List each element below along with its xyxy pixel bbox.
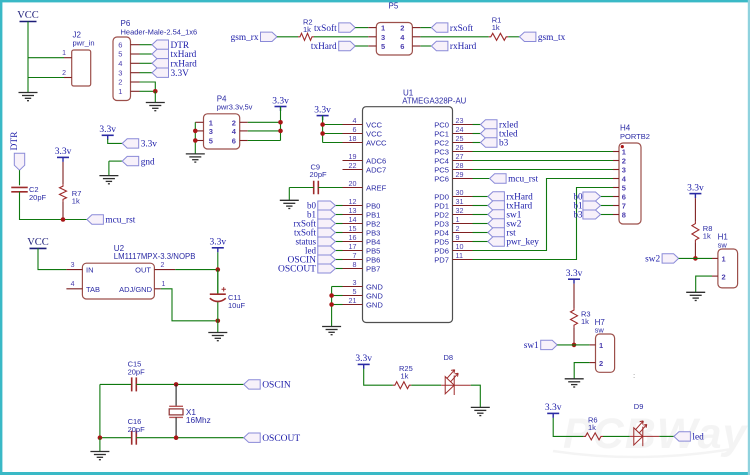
svg-text:PC2: PC2 [434,138,449,147]
ground (below VCC/J2) [19,93,38,101]
svg-text:PC5: PC5 [434,165,449,174]
wire VCC to J2 pin 1 [28,57,64,59]
power flag VCC (top-left) [17,10,39,22]
net label DTR (vertical) [10,131,25,170]
pin 14 (PB2) of U1 [343,223,363,225]
svg-text:GND: GND [366,282,383,291]
wire 3.3v to R25 [364,369,393,385]
wire PC5 to H4 pin 3 [473,169,614,171]
wire P6.2 down to P6.1 [140,82,156,91]
wire P4.4 to 3.3v [248,130,281,132]
IC U1 ATMEGA328P-AU [363,89,467,323]
svg-text:5: 5 [209,137,213,146]
svg-text:PC6: PC6 [434,174,449,183]
pin 2 of H4 [613,160,619,162]
wire R25 to D8 [411,384,441,386]
wire H1 pin 2 to ground [696,276,712,292]
wire C9 to ground [288,188,290,201]
svg-text:2: 2 [62,70,66,77]
svg-text:10uF: 10uF [228,301,246,310]
svg-text:led: led [692,433,704,443]
pin 1 of H4 [613,151,619,153]
watermark PCBWay [553,410,749,458]
wire P4.2 to 3.3v [248,121,281,123]
svg-text:IN: IN [86,266,94,275]
net label b3 (H4) [574,210,601,220]
svg-text:1k: 1k [581,317,589,326]
wire 3.3v to U1 VCC pin 4 [323,124,343,126]
net label led [305,246,335,256]
pin 5 of P4 [195,140,203,142]
wire crystal left rail [99,384,101,437]
svg-text:GND: GND [366,291,383,300]
power flag 3.3v (at U1 VCC) [314,105,331,120]
pin 4 (TAB) of U2 [66,288,82,290]
svg-text:ADC7: ADC7 [366,165,386,174]
connector J2 pwr_in [72,31,95,87]
junction P4.3 [193,129,198,134]
svg-text:PD6: PD6 [434,246,449,255]
svg-text:DTR: DTR [10,131,20,151]
svg-text:LM1117MPX-3.3/NOPB: LM1117MPX-3.3/NOPB [114,252,196,261]
svg-text:sw2: sw2 [645,255,660,265]
net label mcu_rst (PC6) [490,174,539,185]
svg-text:8: 8 [622,211,626,220]
pin 1 of P6 [131,90,140,92]
svg-text:PB1: PB1 [366,210,380,219]
pin 27 (PC4) of U1 [453,160,473,162]
svg-text:16: 16 [349,233,357,242]
pin 8 of H4 [613,214,619,216]
wire P6.1 to ground [140,90,156,92]
pin 2 (OUT) of U2 [154,269,175,271]
junction 3.3v rail / P4.2 [278,120,283,125]
wire PD7 to H4 pin 5 [473,188,614,260]
pin 9 (PD5) of U1 [453,241,473,243]
junction R7/mcu_rst [61,217,66,222]
pin 1 of P5 [368,27,376,29]
svg-text:3.3v: 3.3v [355,354,372,364]
svg-text:2: 2 [161,262,165,269]
net label sw1 (U1 right) [488,210,522,221]
svg-text:7: 7 [353,251,357,260]
svg-text:txSoft: txSoft [314,23,337,34]
svg-text:1: 1 [381,24,385,33]
svg-text:31: 31 [456,197,464,206]
svg-text:led: led [305,246,316,256]
svg-text:1: 1 [162,281,166,288]
resistor R7 1k [60,162,82,220]
pin 18 (AVCC) of U1 [343,142,363,144]
wire b1 to H4 pin 7 [601,205,614,207]
wire VCC vertical to ground [27,22,29,93]
pin 7 (PB6) of U1 [343,259,363,261]
pin 3 of P4 [195,130,203,132]
junction X1 bottom [174,435,179,440]
wire P6.5 to txHard [140,53,153,55]
wire b1 to U1 [335,214,342,216]
svg-text:rxSoft: rxSoft [450,23,474,34]
svg-text:5: 5 [118,50,122,59]
pin 4 of P5 [412,36,420,38]
pin 5 of H4 [613,187,619,189]
svg-text:6: 6 [232,137,236,146]
connector H4 PORTB2 [619,124,650,225]
power flag 3.3v (tie) [99,125,116,140]
net label txled [481,129,518,140]
svg-text:OSCOUT: OSCOUT [262,434,300,444]
wire rst [473,232,488,234]
pin 19 (ADC6) of U1 [343,160,363,162]
pin 11 (PD7) of U1 [453,259,473,261]
svg-text:PB5: PB5 [366,246,380,255]
svg-text:AVCC: AVCC [366,138,387,147]
svg-text:1: 1 [118,87,122,96]
pin 2 (PD4) of U1 [453,232,473,234]
pin 15 (PB3) of U1 [343,232,363,234]
wire pwr_key [473,241,488,243]
svg-text:6: 6 [118,40,122,49]
ground (below U1) [322,327,341,335]
junction OUT/3.3v [216,267,221,272]
net label pwr_key (U1 right) [488,237,539,248]
svg-text:14: 14 [349,215,357,224]
wire C9 to AREF [318,187,342,189]
svg-text:Header-Male-2.54_1x6: Header-Male-2.54_1x6 [121,27,198,36]
net label txSoft [294,228,335,238]
svg-text:pwr_key: pwr_key [506,238,539,248]
pin 7 of H4 [613,205,619,207]
wire junction to H7 pin 1 [574,344,590,346]
net label b1 [307,210,335,220]
net label rxHard [152,59,197,70]
pin 25 (PC2) of U1 [453,142,473,144]
svg-text:26: 26 [456,143,464,152]
svg-text:25: 25 [456,134,464,143]
power flag 3.3v (at R25) [355,354,372,369]
svg-text:2: 2 [456,224,460,233]
net label b0 [307,201,335,211]
wire to C15 [100,383,131,385]
net label OSCOUT [278,264,335,275]
svg-text:1: 1 [62,50,66,57]
power flag 3.3v (at R6) [545,403,562,418]
net label OSCOUT [244,433,301,444]
wire b0 to H4 pin 6 [601,196,614,198]
svg-text:6: 6 [622,193,626,202]
svg-text:sw: sw [595,326,605,335]
wire GND pin 3 [332,286,343,288]
wire P5.4 to R1 [420,36,488,38]
pin 6 of P5 [412,45,420,47]
svg-text:8: 8 [353,260,357,269]
svg-text:15: 15 [349,224,357,233]
pin 31 (PD1) of U1 [453,205,473,207]
net label OSCIN [287,255,335,266]
pin 3 of P5 [368,36,376,38]
svg-text:PD5: PD5 [434,237,449,246]
wire P6.4 to rxHard [140,62,153,64]
wire C9 left [289,187,313,189]
net label gnd (tie) [122,156,155,167]
pin 2 of P6 [131,81,140,83]
wire txSoft to U1 [335,232,342,234]
wire P5.6 to rxHard [420,45,431,47]
wire gsm_rx to R2 [277,36,298,38]
wire 3.3v tie [108,139,123,143]
pin 2 of P5 [412,27,420,29]
connector P4 pwr3.3v,5v [204,95,253,149]
wire C2 to mcu_rst [20,192,87,220]
svg-text:1k: 1k [72,196,80,205]
wire txSoft to P5 pin 1 [355,27,368,29]
resistor R1 1k [489,16,508,41]
svg-text:4: 4 [71,281,75,288]
svg-text:2: 2 [722,272,726,281]
pin 3 of H4 [613,169,619,171]
net label gsm_rx [231,32,277,43]
svg-text:12: 12 [349,197,357,206]
net label led [674,432,704,443]
svg-text:GND: GND [366,300,383,309]
svg-text:17: 17 [349,242,357,251]
svg-text:ADJ/GND: ADJ/GND [119,285,153,294]
wire b3 [473,142,481,144]
wire OUT to 3.3v [175,269,218,271]
pin 12 (PB0) of U1 [343,205,363,207]
svg-text:PB3: PB3 [366,228,380,237]
net label 3.3v (tie) [122,139,157,150]
wire PC6 to mcu_rst [473,178,490,180]
svg-text:1k: 1k [303,25,311,34]
svg-text:1k: 1k [401,372,409,381]
wire txHard [473,205,488,207]
net label mcu_rst (left) [87,215,136,226]
svg-text:20pF: 20pF [128,425,146,434]
pin 22 (ADC7) of U1 [343,169,363,171]
resistor R8 1k [692,198,712,258]
regulator U2 LM1117MPX-3.3/NOPB [82,244,195,299]
wire R2 to P5 pin 3 [314,36,368,38]
svg-text:2: 2 [118,78,122,87]
ground (below C11) [208,333,227,341]
svg-text:21: 21 [349,296,357,305]
pin 2 of H7 [590,362,596,364]
wire 3.3v to C11 to ground [217,270,219,295]
svg-text:3: 3 [118,68,122,77]
svg-text:2: 2 [622,157,626,166]
power flag 3.3v (at P4) [272,96,289,111]
connector H1 sw [718,233,738,288]
wire C15 to OSCIN [136,383,243,385]
svg-text:1: 1 [456,215,460,224]
svg-text:30: 30 [456,188,464,197]
pin 5 (GND) of U1 [343,295,363,297]
svg-text:2: 2 [599,359,603,368]
svg-text:b3: b3 [574,210,584,220]
pin 10 (PD6) of U1 [453,250,473,252]
net label status [295,237,335,247]
wire rxled [473,124,481,126]
net label b1 (H4) [574,201,601,211]
wire sw1 chevron to junction [557,344,574,346]
ground (below H7) [565,379,584,387]
wire OSCIN to U1 [335,259,342,261]
connector P5 2x3 [376,2,412,55]
pin 1 of J2 [64,57,72,59]
svg-text:ATMEGA328P-AU: ATMEGA328P-AU [402,96,466,105]
wire P5.2 to rxSoft [420,27,431,29]
svg-text:TAB: TAB [86,285,100,294]
net label sw2 (U1 right) [488,219,522,230]
svg-text:23: 23 [456,116,464,125]
net label rxHard [431,41,476,52]
svg-text:rxHard: rxHard [450,42,477,52]
svg-text:5: 5 [622,184,626,193]
LED D8 [441,370,471,395]
svg-text::: : [633,371,635,380]
svg-text:gsm_rx: gsm_rx [231,33,259,43]
pin 4 of P6 [131,62,140,64]
wire PD6 to H4 pin 4 [473,179,614,251]
wire junction to H1 pin 1 [695,257,712,259]
pin 13 (PB1) of U1 [343,214,363,216]
svg-text:OSCIN: OSCIN [262,381,291,391]
pin 4 (VCC) of U1 [343,124,363,126]
wire to ground below P6 [154,91,156,102]
ground (below D8) [471,407,490,415]
pin 4 of H4 [613,178,619,180]
svg-text:3: 3 [209,127,213,136]
svg-text:3.3v: 3.3v [566,269,583,279]
wire 3.3v to U1 AVCC pin 18 [323,142,343,144]
pin 3 of P6 [131,72,140,74]
pin 1 of P4 [195,121,203,123]
svg-text:3.3v: 3.3v [209,238,226,248]
svg-text:PD7: PD7 [434,255,449,264]
wire to C16 [100,437,131,439]
svg-text:pwr3.3v,5v: pwr3.3v,5v [217,103,253,112]
svg-text:20pF: 20pF [128,368,146,377]
pin 24 (PC1) of U1 [453,133,473,135]
power flag 3.3v (at R3) [566,269,583,284]
svg-text:6: 6 [400,42,404,51]
svg-text:PC3: PC3 [434,147,449,156]
wire D9 to led label [659,435,674,437]
wire D8 to ground [471,385,481,407]
pin 28 (PC5) of U1 [453,169,473,171]
wire X1 top [175,384,177,406]
wire gnd tie [109,160,122,162]
svg-text:PB0: PB0 [366,201,380,210]
svg-text:b3: b3 [499,139,509,149]
wire 3.3v to U1 VCC pin 6 [323,133,343,135]
wire P4 left rail to ground [194,122,196,154]
svg-text:P5: P5 [389,2,399,11]
pin 1 (PD3) of U1 [453,223,473,225]
svg-text:3: 3 [381,33,385,42]
svg-text:20pF: 20pF [310,170,328,179]
pin 6 of H4 [613,196,619,198]
svg-text:2: 2 [400,24,404,33]
wire b0 to U1 [335,205,342,207]
wire P4.6 to 3.3v [248,140,281,142]
junction R3/sw1 [572,343,577,348]
svg-text:5: 5 [353,287,357,296]
power flag 3.3v (at U2 OUT) [209,238,226,253]
svg-text:PB4: PB4 [366,237,380,246]
svg-text:mcu_rst: mcu_rst [508,175,538,185]
svg-text:AREF: AREF [366,183,387,192]
svg-text:24: 24 [456,125,464,134]
net label gsm_tx [519,32,565,43]
svg-text:1k: 1k [492,23,500,32]
net label rxSoft [431,23,473,34]
wire OSCOUT to U1 [335,268,342,270]
pin 26 (PC3) of U1 [453,151,473,153]
svg-text:1k: 1k [588,423,596,432]
net label txHard (U1 right) [488,201,533,212]
ground (crystal) [90,452,109,460]
resistor R2 1k [298,18,314,41]
pin 20 (AREF) of U1 [343,187,363,189]
pin 3 (GND) of U1 [343,286,363,288]
wire GND pin 5 [332,295,343,297]
svg-text:ADC6: ADC6 [366,156,386,165]
svg-text:3.3v: 3.3v [272,96,289,106]
pin 8 (PB7) of U1 [343,268,363,270]
svg-text:20: 20 [349,179,357,188]
power flag VCC (at U2) [27,237,49,249]
capacitor C15 20pF [128,360,146,392]
svg-text:3.3v: 3.3v [314,105,331,115]
pin 30 (PD0) of U1 [453,196,473,198]
net label rst (U1 right) [488,228,516,239]
junction X1 top [174,382,179,387]
svg-text:D8: D8 [444,353,454,362]
svg-text:VCC: VCC [27,237,49,248]
pin 17 (PB5) of U1 [343,250,363,252]
wire H7 pin 2 to ground [574,363,589,379]
capacitor C16 20pF [128,417,146,445]
ground (below C9) [280,200,299,208]
ground (gnd tie) [99,176,118,184]
resistor R25 1k [393,364,413,389]
ground (below H1) [686,292,705,300]
wire R1 to gsm_tx [508,36,519,38]
svg-text:3: 3 [353,278,357,287]
svg-text:1: 1 [722,255,726,264]
junction 3.3v rail / P4.4 [278,129,283,134]
pin 16 (PB4) of U1 [343,241,363,243]
net label 3.3V [152,68,189,79]
pin 21 (GND) of U1 [343,304,363,306]
svg-text:29: 29 [456,170,464,179]
wire sw2 chevron to junction [679,257,696,259]
pin 5 of P6 [131,53,140,55]
svg-text:3.3v: 3.3v [55,147,72,157]
svg-text:OUT: OUT [135,266,151,275]
svg-text:PB2: PB2 [366,219,380,228]
net label sw2 (H1) [645,254,678,265]
connector P6 Header-Male-2.54_1x6 [113,19,197,101]
svg-text:gsm_tx: gsm_tx [538,33,566,43]
net label txHard (P5.5) [311,41,355,52]
svg-text:3.3V: 3.3V [171,69,190,79]
capacitor C2 20pF [11,185,46,202]
pin 2 of H1 [712,275,718,277]
pin 2 of P4 [240,121,248,123]
